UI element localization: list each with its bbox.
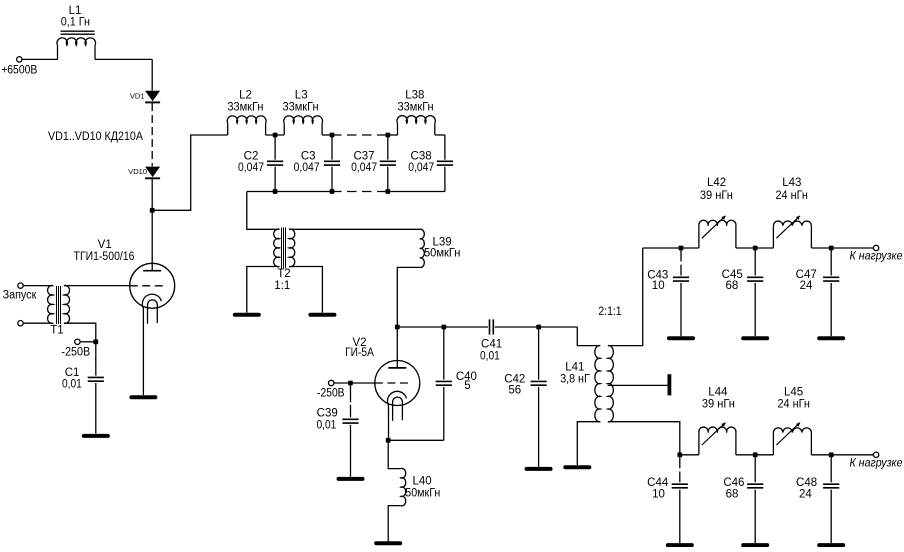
svg-text:24: 24 xyxy=(800,280,813,292)
svg-text:L42: L42 xyxy=(707,177,726,189)
svg-text:3,8 нГ: 3,8 нГ xyxy=(560,374,590,386)
svg-text:-250В: -250В xyxy=(61,346,90,358)
svg-text:T1: T1 xyxy=(50,324,63,336)
svg-text:68: 68 xyxy=(726,489,739,501)
svg-text:68: 68 xyxy=(726,280,739,292)
svg-text:VD1: VD1 xyxy=(130,92,145,101)
svg-text:0,01: 0,01 xyxy=(480,351,500,363)
svg-text:56: 56 xyxy=(508,385,521,397)
svg-text:0,01: 0,01 xyxy=(62,378,82,390)
svg-text:33мкГн: 33мкГн xyxy=(398,101,434,113)
svg-text:10: 10 xyxy=(652,280,665,292)
svg-text:C47: C47 xyxy=(796,269,817,281)
svg-text:24 нГн: 24 нГн xyxy=(778,398,810,410)
svg-text:C41: C41 xyxy=(481,339,502,351)
svg-text:Запуск: Запуск xyxy=(3,289,38,301)
svg-text:0,047: 0,047 xyxy=(294,162,320,174)
svg-text:К нагрузке: К нагрузке xyxy=(850,251,903,263)
svg-text:C1: C1 xyxy=(65,367,80,379)
svg-text:39 нГн: 39 нГн xyxy=(700,190,733,202)
svg-text:C39: C39 xyxy=(317,408,338,420)
svg-text:L40: L40 xyxy=(413,476,432,488)
svg-text:L38: L38 xyxy=(405,90,424,102)
svg-text:50мкГн: 50мкГн xyxy=(424,248,461,260)
svg-text:L3: L3 xyxy=(295,90,308,102)
svg-text:+6500В: +6500В xyxy=(1,64,37,76)
svg-text:L1: L1 xyxy=(69,5,82,17)
svg-text:24: 24 xyxy=(799,489,812,501)
svg-text:1:1: 1:1 xyxy=(274,280,290,292)
svg-text:C48: C48 xyxy=(796,477,817,489)
svg-text:0,01: 0,01 xyxy=(317,419,337,431)
svg-text:VD1..VD10 КД210А: VD1..VD10 КД210А xyxy=(48,131,143,143)
svg-text:C38: C38 xyxy=(411,151,432,163)
svg-text:L43: L43 xyxy=(782,177,801,189)
svg-text:10: 10 xyxy=(652,489,665,501)
svg-text:C46: C46 xyxy=(723,477,744,489)
svg-text:0,1 Гн: 0,1 Гн xyxy=(61,17,90,29)
svg-text:33мкГн: 33мкГн xyxy=(227,101,263,113)
svg-text:T2: T2 xyxy=(277,268,290,280)
svg-text:C42: C42 xyxy=(504,373,525,385)
svg-text:0,047: 0,047 xyxy=(238,162,264,174)
svg-text:2:1:1: 2:1:1 xyxy=(598,306,621,318)
svg-text:ТГИ1-500/16: ТГИ1-500/16 xyxy=(74,251,135,263)
svg-text:39 нГн: 39 нГн xyxy=(702,398,735,410)
svg-text:24 нГн: 24 нГн xyxy=(776,190,808,202)
svg-text:V1: V1 xyxy=(98,239,112,251)
svg-text:L2: L2 xyxy=(239,90,252,102)
svg-text:-250В: -250В xyxy=(317,388,345,400)
svg-text:L41: L41 xyxy=(565,361,584,373)
svg-text:VD10: VD10 xyxy=(128,167,147,176)
svg-text:L44: L44 xyxy=(708,387,728,399)
svg-text:C37: C37 xyxy=(353,151,374,163)
svg-text:0,047: 0,047 xyxy=(408,162,434,174)
svg-text:C3: C3 xyxy=(301,151,316,163)
svg-text:5: 5 xyxy=(464,380,470,392)
svg-text:C45: C45 xyxy=(722,269,743,281)
svg-text:0,047: 0,047 xyxy=(351,162,377,174)
svg-text:33мкГн: 33мкГн xyxy=(282,101,318,113)
svg-text:C2: C2 xyxy=(244,151,259,163)
svg-text:50мкГн: 50мкГн xyxy=(405,487,440,499)
svg-text:C44: C44 xyxy=(647,477,669,489)
svg-text:L45: L45 xyxy=(784,387,803,399)
svg-text:К нагрузке: К нагрузке xyxy=(850,458,903,470)
svg-text:ГИ-5А: ГИ-5А xyxy=(345,347,374,359)
